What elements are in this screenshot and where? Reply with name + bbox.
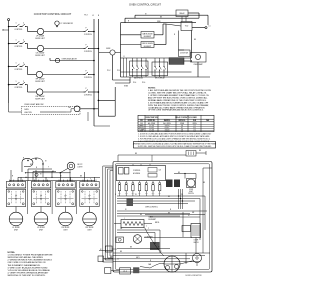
svg-text:Y: Y	[48, 167, 49, 169]
svg-text:OVEN: OVEN	[189, 189, 193, 191]
svg-text:OPEN: OPEN	[180, 123, 184, 125]
svg-text:5-6: 5-6	[181, 125, 183, 127]
svg-text:CLK: CLK	[159, 170, 162, 172]
svg-text:P1-1: P1-1	[118, 193, 121, 195]
svg-text:R: R	[115, 194, 116, 196]
svg-text:1: 1	[16, 40, 17, 42]
svg-text:OPEN: OPEN	[192, 123, 196, 125]
svg-text:LIGHT: LIGHT	[189, 191, 193, 193]
svg-text:ELEMENT: ELEMENT	[149, 219, 157, 221]
svg-text:CONTROL: CONTROL	[14, 69, 22, 71]
svg-text:BK: BK	[52, 171, 54, 173]
svg-text:P1-9: P1-9	[84, 15, 87, 17]
svg-text:P1-8: P1-8	[124, 271, 127, 273]
svg-text:1: 1	[16, 23, 17, 25]
svg-text:P: P	[85, 88, 86, 90]
svg-text:1-2 3-4: 1-2 3-4	[149, 130, 154, 132]
svg-text:CONTROL: CONTROL	[14, 46, 22, 48]
svg-text:P1-6: P1-6	[142, 82, 145, 84]
svg-text:BK: BK	[168, 213, 170, 215]
svg-text:LT. INDICATOR: LT. INDICATOR	[61, 22, 74, 25]
svg-text:BK: BK	[178, 172, 180, 174]
svg-text:SURF UNIT: SURF UNIT	[35, 81, 45, 83]
svg-text:6-7: 6-7	[181, 127, 183, 129]
svg-text:P: P	[85, 28, 86, 30]
svg-text:1: 1	[16, 81, 17, 83]
svg-text:TIME: TIME	[140, 130, 144, 132]
svg-text:P: P	[85, 45, 86, 47]
svg-text:CONTROL: CONTROL	[14, 29, 22, 31]
svg-text:DLB: DLB	[193, 120, 196, 122]
svg-text:OFF: OFF	[140, 123, 143, 125]
svg-text:BK: BK	[135, 153, 137, 155]
svg-text:BK: BK	[120, 251, 122, 253]
svg-text:3-4 5-6: 3-4 5-6	[165, 130, 170, 132]
svg-text:OF THE OVEN TEMPERATURE AND SE: OF THE OVEN TEMPERATURE AND SELECTOR CON…	[148, 109, 204, 112]
svg-text:1. DISCONNECT POWER FROM RANGE: 1. DISCONNECT POWER FROM RANGE BEFORE	[8, 253, 54, 256]
svg-text:BROIL EL: BROIL EL	[179, 120, 186, 122]
svg-text:SURF UNIT: SURF UNIT	[35, 38, 45, 40]
svg-text:DOOR SW: DOOR SW	[180, 53, 188, 55]
svg-text:HOUSING: HOUSING	[133, 173, 141, 175]
svg-text:ELEMENT: ELEMENT	[144, 46, 152, 48]
svg-text:MODE SEL: MODE SEL	[148, 120, 156, 122]
svg-text:SURF UNIT: SURF UNIT	[35, 55, 45, 57]
svg-text:2: 2	[23, 81, 24, 83]
svg-text:BROIL 3600W: BROIL 3600W	[142, 43, 153, 45]
svg-text:OVEN LIGHT AND SW: OVEN LIGHT AND SW	[24, 103, 44, 106]
svg-text:W/BK: W/BK	[157, 21, 161, 23]
svg-text:Y-YELLOW GR-GREEN BU-BLUE OR-O: Y-YELLOW GR-GREEN BU-BLUE OR-ORANGE	[8, 269, 51, 272]
svg-text:2: 2	[23, 63, 24, 65]
svg-text:R: R	[123, 56, 124, 58]
svg-text:7-8: 7-8	[193, 125, 195, 127]
svg-text:SERVICING UNIT AND ALL THE WIR: SERVICING UNIT AND ALL THE WIRES	[8, 256, 44, 259]
svg-text:P1-2: P1-2	[125, 193, 128, 195]
svg-text:BK: BK	[203, 182, 205, 184]
svg-text:SERVICING OF THIS UNIT IS COMP: SERVICING OF THIS UNIT IS COMPLETE.	[8, 275, 46, 277]
svg-text:OVEN CONTROL: OVEN CONTROL	[145, 207, 158, 209]
svg-text:CONTROL: CONTROL	[84, 77, 92, 79]
svg-text:2: 2	[23, 40, 24, 42]
svg-text:BK: BK	[168, 196, 170, 198]
svg-text:OVEN CONTROL CIRCUIT: OVEN CONTROL CIRCUIT	[129, 2, 161, 6]
svg-text:SWITCH: SWITCH	[188, 193, 194, 195]
svg-text:INF: INF	[15, 196, 17, 198]
svg-text:5-6: 5-6	[181, 130, 183, 132]
svg-text:Y: Y	[148, 228, 149, 230]
svg-text:P1-6: P1-6	[152, 193, 155, 195]
svg-text:P1-7: P1-7	[158, 193, 161, 195]
svg-text:1-2 3-4: 1-2 3-4	[149, 125, 154, 127]
svg-text:INF: INF	[40, 196, 42, 198]
svg-text:BU: BU	[140, 214, 142, 216]
svg-text:BK: BK	[160, 16, 162, 18]
svg-text:BK: BK	[194, 39, 196, 41]
svg-text:P3: P3	[181, 194, 183, 196]
svg-text:CONTROL: CONTROL	[84, 94, 92, 96]
svg-text:P1: P1	[135, 194, 137, 196]
svg-text:P: P	[85, 71, 86, 73]
svg-text:8-9: 8-9	[193, 127, 195, 129]
svg-text:BK: BK	[30, 164, 32, 166]
svg-text:ELEMENT: ELEMENT	[144, 36, 152, 38]
svg-text:CONTROL: CONTROL	[84, 51, 92, 53]
svg-text:P1-2: P1-2	[107, 70, 110, 72]
svg-text:CONTROL: CONTROL	[133, 170, 140, 172]
svg-text:COOKTOP CONTROL CIRCUIT: COOKTOP CONTROL CIRCUIT	[34, 12, 72, 16]
svg-text:P1-5: P1-5	[145, 193, 148, 195]
svg-text:3. WIRE CODE: BK-BLACK W-WHITE: 3. WIRE CODE: BK-BLACK W-WHITE R-RED	[8, 266, 49, 269]
svg-text:4-5 6-7: 4-5 6-7	[165, 127, 170, 129]
svg-text:W/BK: W/BK	[124, 86, 128, 88]
svg-text:P1-4: P1-4	[133, 82, 136, 84]
svg-text:7-8: 7-8	[193, 130, 195, 132]
svg-text:INF: INF	[88, 196, 90, 198]
svg-text:LIGHT SW: LIGHT SW	[24, 112, 32, 114]
svg-text:4. VERIFY PROPER OPERATION AFT: 4. VERIFY PROPER OPERATION AFTER ANY	[8, 272, 50, 275]
svg-text:L1: L1	[209, 26, 211, 28]
svg-text:P1-4: P1-4	[138, 193, 141, 195]
svg-text:1: 1	[16, 63, 17, 65]
svg-text:GR/Y: GR/Y	[136, 257, 140, 259]
svg-text:ONLY. WIRE COLORS ARE AS NOTED: ONLY. WIRE COLORS ARE AS NOTED ON	[8, 261, 47, 264]
svg-text:L1: L1	[92, 15, 94, 17]
svg-text:CONTROL: CONTROL	[84, 34, 92, 36]
svg-text:2: 2	[23, 23, 24, 25]
svg-text:CONTROL: CONTROL	[14, 87, 22, 89]
svg-text:BK: BK	[80, 175, 82, 177]
svg-text:DOOR LOCK MOTOR: DOOR LOCK MOTOR	[186, 275, 203, 277]
svg-text:LIGHT: LIGHT	[78, 166, 83, 168]
svg-text:SURF UNIT: SURF UNIT	[35, 98, 45, 100]
svg-text:P1-1: P1-1	[117, 70, 120, 72]
svg-text:THE SCHEMATIC DIAGRAM ABOVE.: THE SCHEMATIC DIAGRAM ABOVE.	[8, 264, 41, 267]
svg-text:OVEN INDICATOR: OVEN INDICATOR	[62, 58, 78, 61]
svg-text:3-4 5-6: 3-4 5-6	[165, 125, 170, 127]
svg-text:BROIL: BROIL	[155, 222, 160, 224]
svg-text:BK: BK	[199, 150, 201, 152]
svg-text:BK: BK	[130, 247, 132, 249]
svg-text:INF: INF	[64, 196, 66, 198]
svg-text:OVEN TEMP SW: OVEN TEMP SW	[145, 117, 158, 119]
svg-text:BROIL: BROIL	[139, 127, 144, 129]
svg-text:2-3 4-5: 2-3 4-5	[149, 127, 154, 129]
